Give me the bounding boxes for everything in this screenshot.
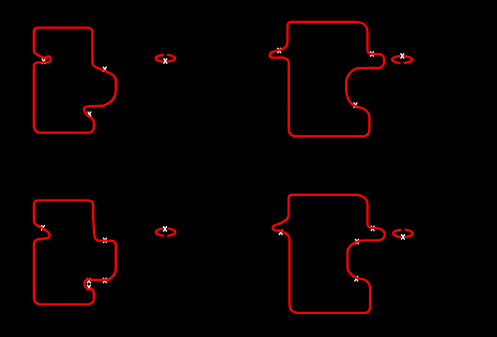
marker BL bottom hook lower (88, 285, 91, 289)
small ellipse top-left (156, 53, 175, 63)
marker TR ellipse (401, 54, 404, 58)
contour blob bottom-right (273, 195, 385, 313)
small ellipse bottom-left (156, 227, 176, 237)
marker TR groove (354, 103, 357, 107)
marker TL ellipse (164, 59, 167, 63)
contour blob top-right (270, 22, 385, 136)
small ellipse bottom-right (393, 228, 413, 239)
marker BL hook (42, 226, 45, 230)
marker BR groove bottom (355, 277, 358, 281)
contour blob bottom-left (34, 200, 116, 304)
marker BL bottom hook upper (88, 279, 91, 283)
marker TL bottom hook (88, 112, 91, 116)
small ellipse top-right (392, 54, 412, 64)
contour blob top-left (34, 28, 116, 133)
marker BL bottom line (103, 278, 106, 282)
marker BR hook (279, 230, 282, 234)
marker TL diagonal (103, 67, 106, 71)
marker BL step (104, 238, 107, 242)
marker TR tab corner (370, 52, 373, 56)
marker BR ellipse (402, 235, 405, 239)
marker BL ellipse (164, 227, 167, 231)
marker BR tab corner (371, 226, 374, 230)
marker BR tab return (356, 239, 359, 243)
white junction markers (under the red strokes) (42, 48, 375, 289)
marker TR hook (278, 48, 281, 52)
marker TL hook (42, 59, 45, 63)
